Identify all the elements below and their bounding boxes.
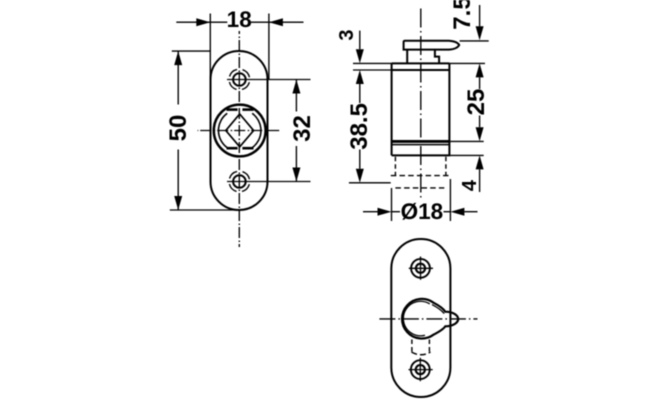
- knob taper double line: [432, 305, 444, 314]
- svg-text:32: 32: [289, 115, 316, 142]
- dimension 3 line and arrow: [359, 31, 361, 50]
- side view vertical centerline: [420, 9, 422, 200]
- dimension 50 line and arrows: [177, 51, 179, 210]
- svg-text:7.5: 7.5: [449, 0, 476, 30]
- svg-text:Ø18: Ø18: [401, 199, 444, 224]
- hidden arc below knob: [411, 352, 430, 355]
- dimension 50 extension lines: [172, 50, 211, 52]
- dimension 4 line and arrow: [479, 169, 481, 192]
- plate outline: [391, 239, 450, 397]
- square spindle hole (diamond): [226, 114, 254, 147]
- hidden spigot dashed lines: [395, 157, 446, 176]
- plate outline: [211, 51, 268, 210]
- hidden lines below knob: [412, 340, 430, 354]
- bottom screw hole: [409, 358, 433, 381]
- flange joint line: [392, 69, 450, 71]
- svg-text:18: 18: [227, 7, 252, 32]
- dimension 25 line and arrows: [479, 77, 481, 127]
- 38.5 bottom extension line: [349, 182, 391, 184]
- body top extension lines: [353, 62, 392, 64]
- dimension 7.5 line and arrow: [479, 5, 481, 26]
- svg-text:50: 50: [165, 115, 192, 142]
- dimension 32 line and arrows: [295, 80, 297, 182]
- band lower line: [392, 144, 450, 146]
- knob neck: [406, 50, 408, 64]
- bottom edge extension line: [450, 154, 483, 156]
- knob inner contour arc: [403, 301, 429, 336]
- rosette outer circle: [214, 105, 266, 157]
- knob horizontal centerline: [379, 318, 477, 320]
- dimension 18 extension lines: [209, 14, 211, 80]
- dimension diam 18 line and arrows: [363, 211, 478, 213]
- vertical centerline of plate: [238, 31, 240, 247]
- dimension 38.5 line and arrows: [359, 84, 361, 169]
- clip tabs: [227, 110, 254, 149]
- body bottom edge: [392, 154, 451, 156]
- band extension line: [449, 140, 483, 142]
- svg-text:3: 3: [336, 29, 358, 40]
- top screw hole: [409, 257, 433, 280]
- dimension diam 18 extension lines: [391, 188, 393, 221]
- thumbturn knob (side): [404, 41, 460, 50]
- thick stop band: [392, 140, 450, 143]
- top screw hole: [227, 69, 311, 90]
- dimension 18 line and arrows: [176, 21, 227, 23]
- body top edge: [392, 62, 450, 64]
- thumbturn knob (front) outline: [402, 299, 458, 339]
- spring clip ring (arcs with top/bottom gaps): [218, 113, 260, 147]
- body sides: [391, 63, 393, 155]
- svg-text:4: 4: [459, 179, 481, 191]
- svg-text:38.5: 38.5: [346, 103, 373, 150]
- bottom screw hole: [227, 171, 311, 192]
- svg-text:25: 25: [463, 89, 490, 116]
- rosette horizontal centerline: [198, 130, 280, 132]
- knob top extension line: [460, 40, 489, 42]
